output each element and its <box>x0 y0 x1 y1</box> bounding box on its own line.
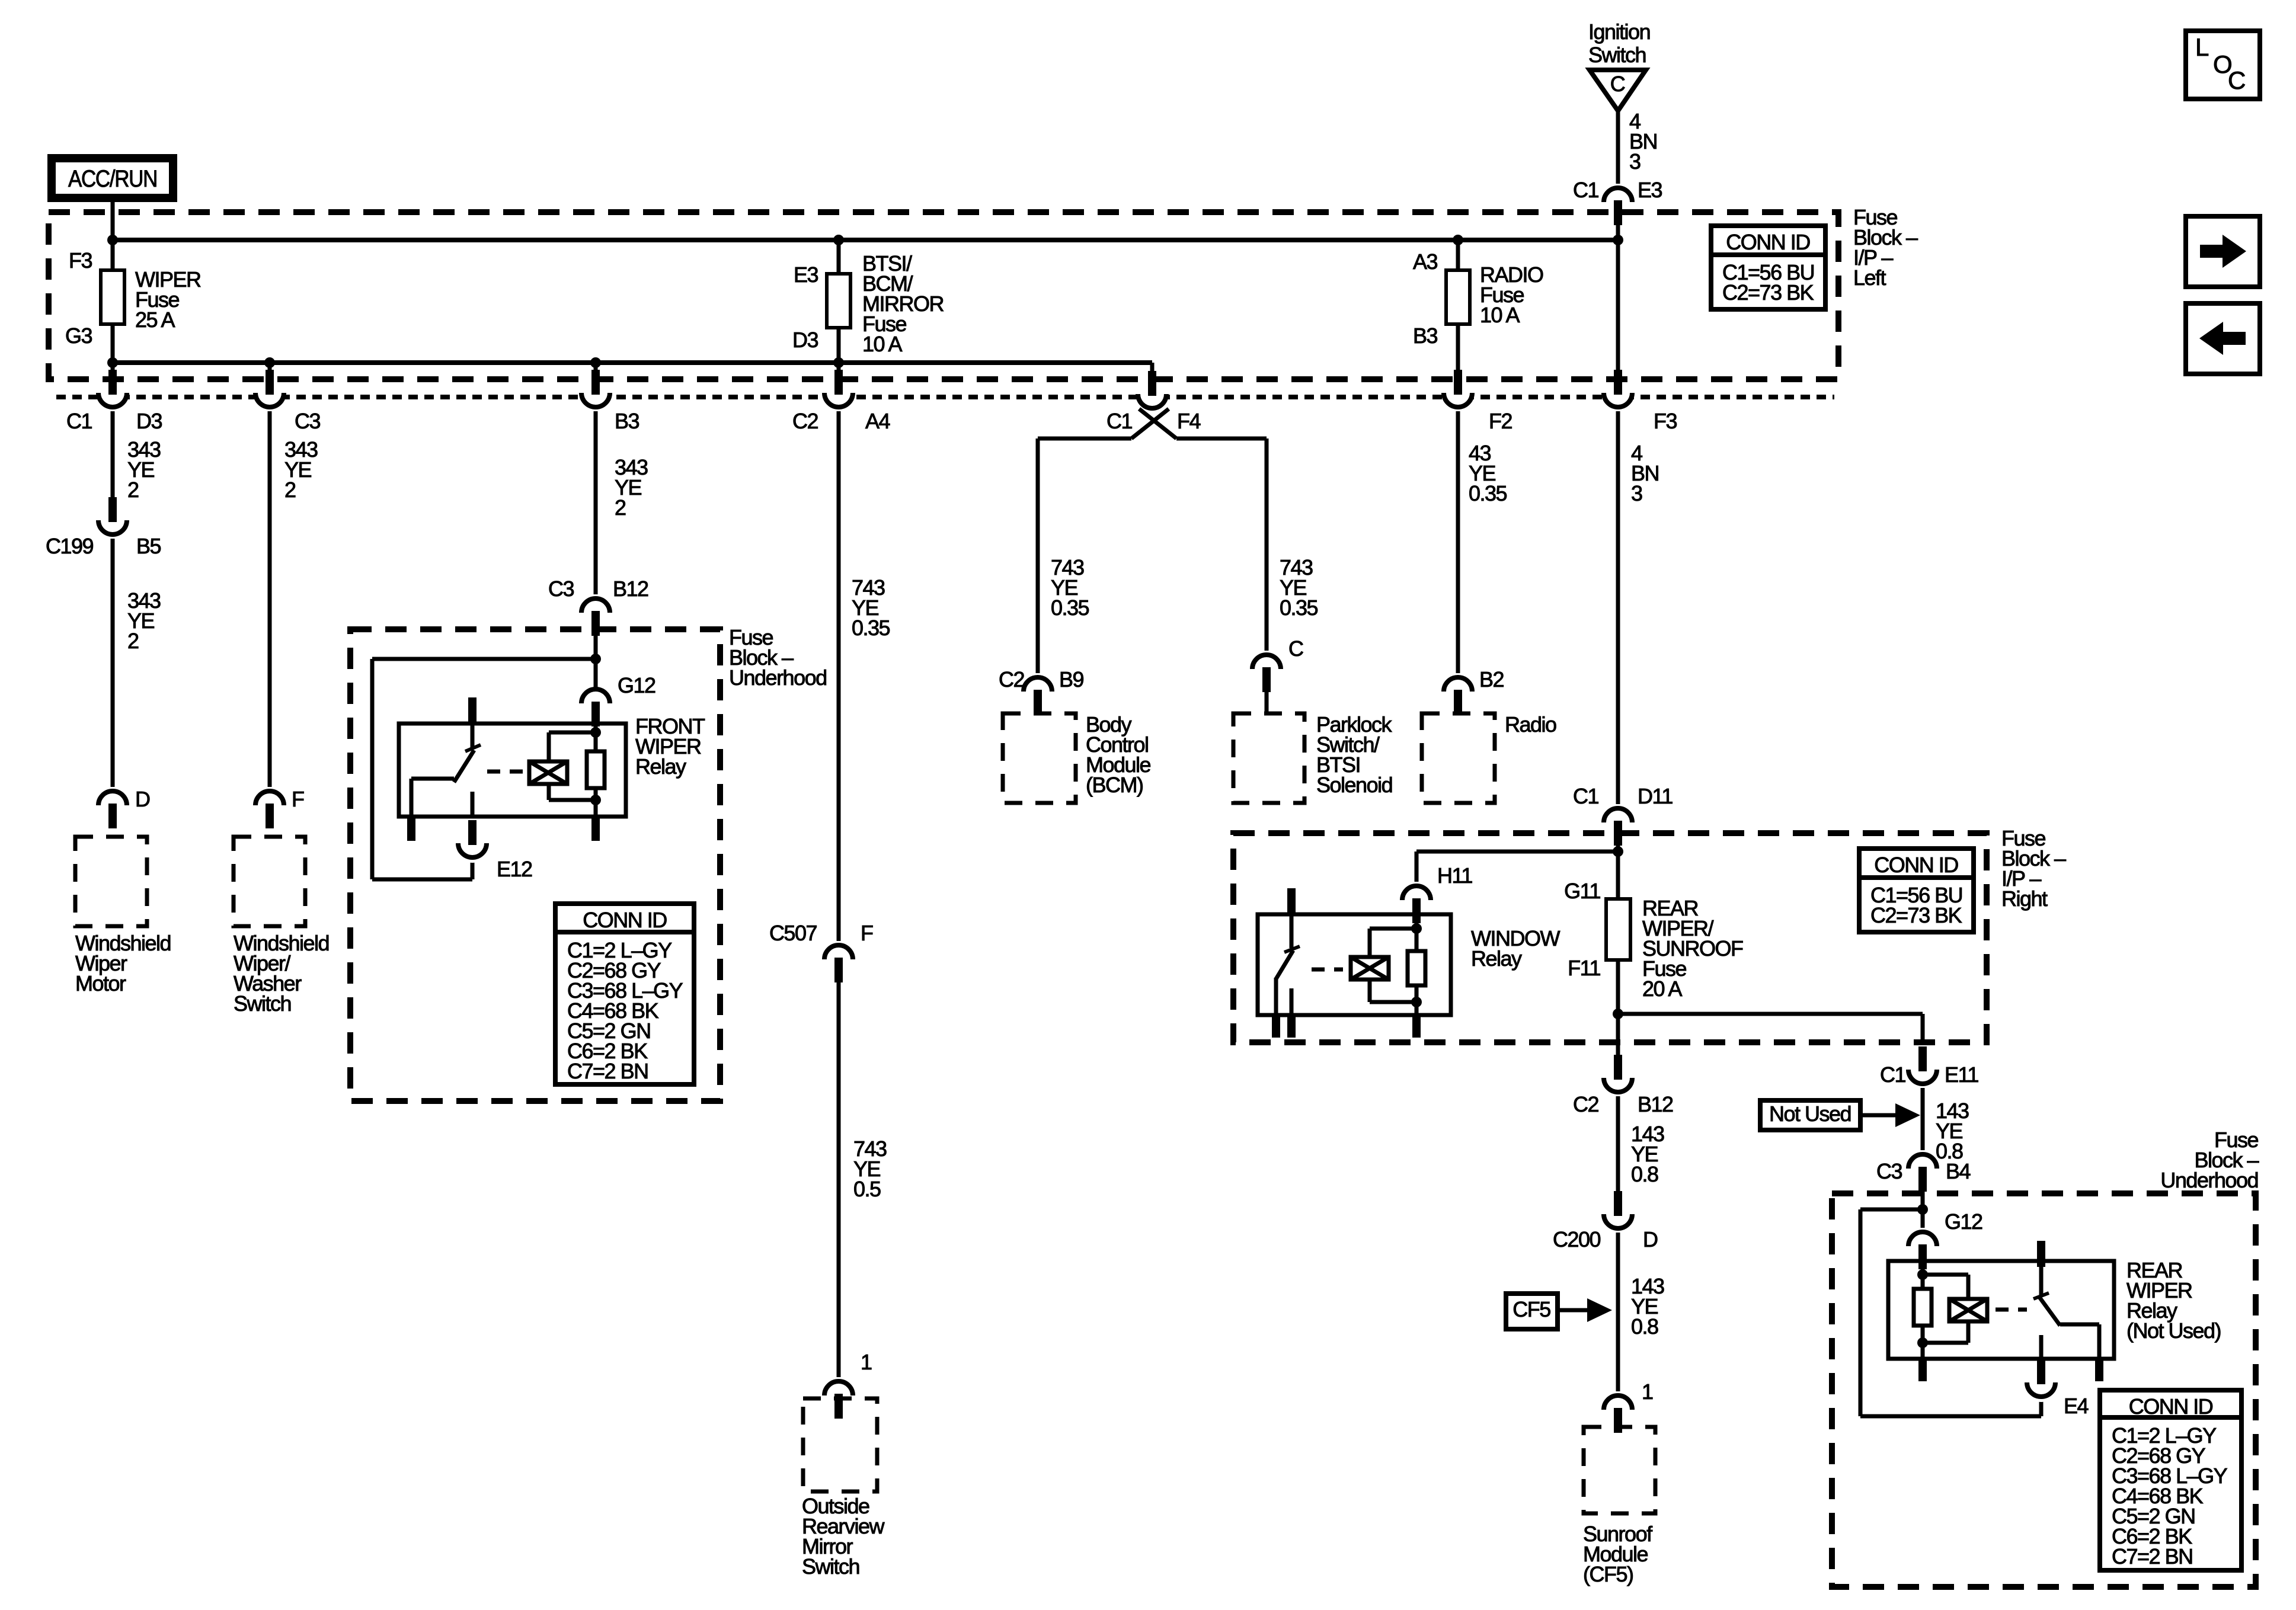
svg-text:E11: E11 <box>1945 1062 1978 1087</box>
svg-text:C1: C1 <box>1107 409 1132 433</box>
svg-text:1: 1 <box>861 1350 872 1374</box>
svg-text:Not Used: Not Used <box>1769 1102 1851 1126</box>
svg-text:C3: C3 <box>1876 1159 1902 1183</box>
svg-text:F2: F2 <box>1489 409 1512 433</box>
svg-text:B3: B3 <box>615 409 639 433</box>
svg-text:B9: B9 <box>1059 667 1084 692</box>
svg-text:C1: C1 <box>1573 178 1598 202</box>
svg-text:F: F <box>861 921 873 945</box>
svg-text:G12: G12 <box>618 673 655 697</box>
svg-text:CONN ID: CONN ID <box>1874 853 1958 877</box>
svg-text:B12: B12 <box>1638 1092 1673 1116</box>
svg-text:F: F <box>292 787 304 811</box>
svg-text:D: D <box>135 787 150 811</box>
svg-text:Motor: Motor <box>75 971 126 996</box>
svg-text:Relay: Relay <box>635 754 686 779</box>
svg-text:A4: A4 <box>865 409 890 433</box>
svg-text:B5: B5 <box>136 534 161 558</box>
svg-text:CONN ID: CONN ID <box>2129 1394 2213 1419</box>
svg-text:0.35: 0.35 <box>1280 596 1318 620</box>
svg-text:D11: D11 <box>1638 784 1673 808</box>
svg-text:C1: C1 <box>66 409 92 433</box>
svg-text:C3: C3 <box>295 409 320 433</box>
svg-text:G3: G3 <box>65 324 92 348</box>
svg-text:D3: D3 <box>136 409 162 433</box>
svg-text:Right: Right <box>2001 886 2048 911</box>
svg-text:Underhood: Underhood <box>2160 1168 2258 1192</box>
svg-text:E4: E4 <box>2064 1394 2089 1418</box>
svg-text:E12: E12 <box>497 857 532 881</box>
svg-text:0.8: 0.8 <box>1631 1162 1658 1186</box>
svg-text:L: L <box>2195 33 2208 61</box>
svg-text:0.8: 0.8 <box>1631 1314 1658 1339</box>
svg-text:G11: G11 <box>1564 879 1600 903</box>
svg-text:(Not Used): (Not Used) <box>2126 1318 2221 1343</box>
svg-text:C199: C199 <box>46 534 94 558</box>
svg-text:(CF5): (CF5) <box>1583 1562 1633 1586</box>
svg-text:C1: C1 <box>1573 784 1598 808</box>
svg-text:D3: D3 <box>792 328 818 352</box>
svg-text:10 A: 10 A <box>862 332 903 356</box>
svg-text:C7=2 BN: C7=2 BN <box>567 1059 648 1083</box>
svg-text:CF5: CF5 <box>1512 1297 1550 1321</box>
svg-text:1: 1 <box>1642 1379 1653 1404</box>
svg-text:Switch: Switch <box>1588 43 1646 67</box>
svg-text:(BCM): (BCM) <box>1086 773 1143 797</box>
svg-text:Switch: Switch <box>802 1554 859 1579</box>
svg-text:C2=73 BK: C2=73 BK <box>1870 903 1962 927</box>
svg-text:H11: H11 <box>1437 863 1472 888</box>
svg-text:0.35: 0.35 <box>1051 596 1089 620</box>
svg-text:Solenoid: Solenoid <box>1316 773 1392 797</box>
svg-text:10 A: 10 A <box>1480 303 1520 327</box>
svg-text:2: 2 <box>615 495 626 520</box>
svg-text:C2: C2 <box>1573 1092 1598 1116</box>
svg-text:Relay: Relay <box>1471 946 1522 971</box>
svg-text:0.35: 0.35 <box>1469 481 1507 505</box>
svg-text:0.35: 0.35 <box>852 616 890 640</box>
svg-text:C2=73 BK: C2=73 BK <box>1722 280 1814 305</box>
svg-text:F11: F11 <box>1568 956 1600 980</box>
svg-text:0.5: 0.5 <box>853 1177 881 1201</box>
svg-text:B4: B4 <box>1946 1159 1971 1183</box>
svg-text:Underhood: Underhood <box>729 665 827 690</box>
svg-text:C200: C200 <box>1553 1227 1601 1251</box>
svg-text:B3: B3 <box>1413 324 1438 348</box>
svg-text:C7=2 BN: C7=2 BN <box>2112 1544 2193 1569</box>
svg-text:C2: C2 <box>792 409 818 433</box>
svg-text:C: C <box>2228 66 2245 94</box>
svg-text:C: C <box>1288 636 1303 661</box>
svg-text:F3: F3 <box>69 248 92 273</box>
svg-text:20 A: 20 A <box>1642 977 1683 1001</box>
svg-text:A3: A3 <box>1413 249 1438 274</box>
svg-text:3: 3 <box>1631 481 1642 505</box>
svg-text:CONN ID: CONN ID <box>583 908 667 932</box>
svg-text:C2: C2 <box>999 667 1024 692</box>
svg-text:Switch: Switch <box>234 991 291 1016</box>
svg-text:E3: E3 <box>1638 178 1662 202</box>
svg-text:25 A: 25 A <box>135 308 175 332</box>
svg-text:C3: C3 <box>548 577 574 601</box>
svg-text:B2: B2 <box>1479 667 1504 692</box>
svg-text:C1: C1 <box>1880 1062 1905 1087</box>
svg-text:C: C <box>1610 72 1625 96</box>
svg-text:D: D <box>1643 1227 1658 1251</box>
svg-text:Radio: Radio <box>1505 712 1556 737</box>
svg-text:B12: B12 <box>613 577 648 601</box>
svg-text:G12: G12 <box>1945 1209 1982 1234</box>
svg-text:CONN ID: CONN ID <box>1726 230 1810 254</box>
svg-text:F3: F3 <box>1654 409 1677 433</box>
svg-text:2: 2 <box>127 478 139 502</box>
svg-text:Ignition: Ignition <box>1588 20 1650 44</box>
svg-text:E3: E3 <box>794 263 818 287</box>
svg-text:ACC/RUN: ACC/RUN <box>68 166 157 192</box>
svg-text:F4: F4 <box>1177 409 1200 433</box>
svg-text:2: 2 <box>127 629 139 653</box>
svg-text:3: 3 <box>1629 149 1641 174</box>
svg-text:Left: Left <box>1853 265 1886 290</box>
svg-text:2: 2 <box>284 478 296 502</box>
svg-text:C507: C507 <box>769 921 817 945</box>
